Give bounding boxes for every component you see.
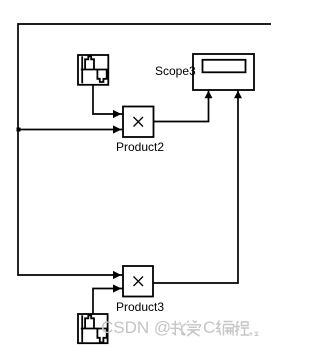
watermark char 爱: [187, 320, 201, 336]
arrowhead into Product2 in1: [113, 110, 121, 118]
watermark char 我: [171, 321, 186, 335]
pulse generator block 2: [78, 314, 108, 343]
product block Product3: [123, 266, 153, 297]
arrowhead into Product2 in2: [113, 125, 121, 133]
scope block Scope3: [193, 54, 254, 90]
wire junction to Product2 in2: [18, 129, 123, 131]
pulse generator block 1: [78, 55, 108, 85]
watermark char 编: [217, 321, 234, 336]
arrowhead into Product3 in2: [113, 284, 121, 292]
arrowhead into Scope3 in2: [234, 91, 242, 99]
label Product2: [116, 141, 164, 153]
arrowhead into Product3 in1: [113, 271, 121, 279]
wire feedback loop top/left/bottom into Product3 in1: [18, 24, 271, 275]
pulse generator 2 icon: [81, 315, 108, 342]
label Scope3: [155, 65, 196, 77]
product block Product2: [123, 107, 154, 138]
arrowhead into Scope3 in1: [205, 91, 213, 99]
watermark CSDN @我爱C编程 (vector, gray): [171, 320, 250, 336]
watermark char 程: [235, 321, 250, 336]
pulse generator 1 icon: [81, 56, 108, 83]
wire pulse generator 1 to Product2 in1: [93, 84, 123, 114]
label Product3: [116, 301, 164, 313]
wire Product3 out to Scope3 in2: [153, 90, 238, 283]
watermark latin text CSDN @ ... C: [101, 319, 171, 336]
wire pulse generator 2 to Product3 in2: [93, 289, 123, 315]
wire Product2 out to Scope3 in1: [154, 90, 209, 122]
node junction dot: [17, 128, 21, 132]
watermark tiny suffix 社区: [250, 332, 259, 336]
